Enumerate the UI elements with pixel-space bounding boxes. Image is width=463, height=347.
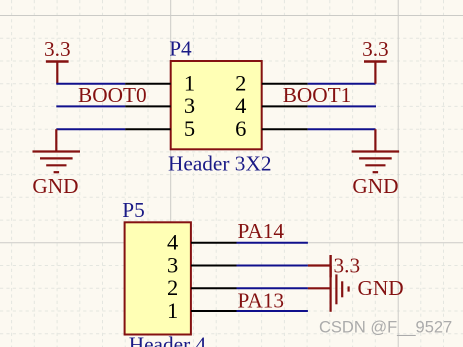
ground symbol (left) (33, 129, 81, 172)
wire BOOT0 to P4 pin 3 (56, 105, 125, 107)
svg-text:GND: GND (352, 174, 398, 198)
svg-text:2: 2 (167, 275, 178, 300)
svg-text:3.3: 3.3 (362, 37, 389, 61)
svg-text:6: 6 (235, 116, 246, 141)
svg-text:Header 3X2: Header 3X2 (168, 151, 271, 175)
ground symbol (right) (352, 129, 400, 172)
svg-text:GND: GND (32, 174, 78, 198)
svg-text:5: 5 (184, 116, 195, 141)
P5 pin 4 (191, 242, 237, 244)
P4 pin 4 (262, 105, 308, 107)
svg-text:P5: P5 (122, 198, 145, 222)
svg-text:CSDN @F__9527: CSDN @F__9527 (319, 319, 452, 337)
svg-text:1: 1 (184, 71, 195, 96)
connector P5 body (125, 222, 191, 334)
svg-text:PA14: PA14 (238, 219, 285, 243)
svg-text:3: 3 (167, 252, 178, 277)
P5 pin 1 (191, 310, 237, 312)
svg-text:PA13: PA13 (238, 289, 285, 313)
P5 pin 2 (191, 287, 237, 289)
wire P5 pin 3 to 3.3 (237, 265, 308, 267)
svg-text:2: 2 (235, 71, 246, 96)
wire P4 pin 6 to GND (308, 128, 376, 130)
svg-text:3: 3 (184, 93, 195, 118)
P4 pin 2 (262, 83, 308, 85)
wire P4 pin 2 to 3.3 (308, 83, 376, 85)
svg-text:4: 4 (235, 93, 246, 118)
wire from GND to P4 pin 5 (56, 128, 125, 130)
wire P5 pin 1 PA13 (237, 310, 308, 312)
P5 pin 3 (191, 265, 237, 267)
power 3.3 symbol (top right) (364, 62, 387, 84)
connector P4 body (171, 61, 262, 149)
ground symbol (bottom, rotated) (308, 266, 349, 312)
P4 pin 5 (125, 128, 171, 130)
svg-text:Header 4: Header 4 (129, 333, 207, 347)
P4 pin 1 (125, 83, 171, 85)
svg-text:BOOT0: BOOT0 (78, 83, 147, 107)
power 3.3 symbol (bottom, rotated) (308, 255, 331, 277)
svg-text:1: 1 (167, 298, 178, 323)
P4 pin 3 (125, 105, 171, 107)
wire P4 pin 4 BOOT1 (308, 105, 376, 107)
wire from 3.3 to P4 pin 1 (56, 83, 125, 85)
wire P5 pin 4 PA14 (237, 242, 308, 244)
wire P5 pin 2 to GND (237, 287, 308, 289)
svg-text:3.3: 3.3 (334, 254, 361, 278)
power 3.3 symbol (top left) (46, 62, 69, 84)
svg-text:P4: P4 (169, 36, 192, 60)
svg-text:3.3: 3.3 (44, 37, 71, 61)
svg-text:BOOT1: BOOT1 (283, 83, 352, 107)
P4 pin 6 (262, 128, 308, 130)
svg-text:4: 4 (167, 230, 178, 255)
svg-text:GND: GND (358, 276, 404, 300)
